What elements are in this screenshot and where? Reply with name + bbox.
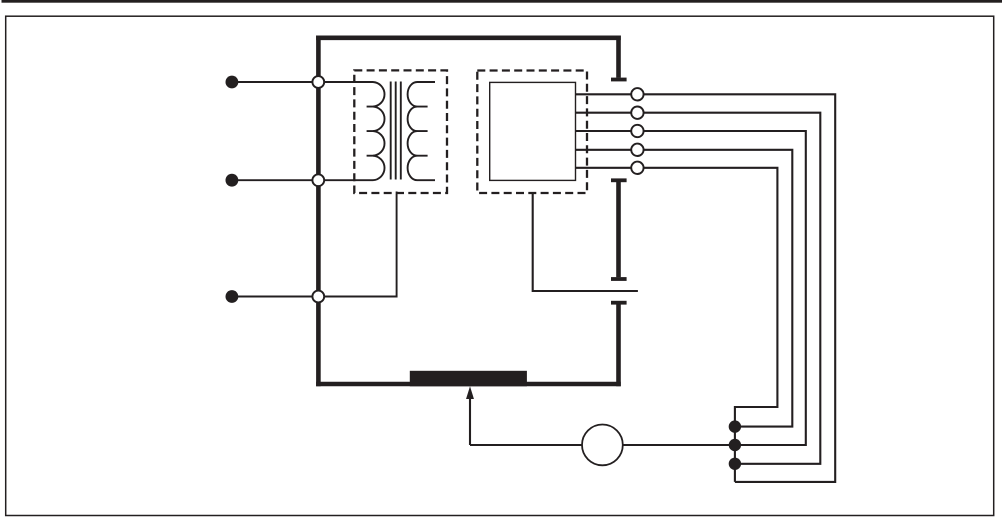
probe arrow shaft <box>469 399 471 446</box>
enclosure right wall middle stub <box>616 182 621 277</box>
transformer primary winding <box>373 82 385 180</box>
output wire 1 <box>576 94 836 482</box>
wire meter to bus <box>623 444 735 446</box>
enclosure bottom wall <box>316 382 621 387</box>
secondary winding cusp ticks <box>417 107 428 156</box>
antenna terminal A3 <box>631 125 643 137</box>
output wire 2 <box>576 113 821 464</box>
output wire 3 <box>576 131 806 445</box>
output wire 4 <box>576 150 793 427</box>
bushing terminal B2 <box>312 174 324 186</box>
bushing terminal B1 <box>312 76 324 88</box>
antenna terminal A1 <box>631 88 643 100</box>
primary winding cusp ticks <box>367 107 374 156</box>
wire L2 to transformer primary bottom <box>232 179 373 181</box>
transformer T1 dashed box <box>354 70 447 193</box>
antenna terminal A4 <box>631 144 643 156</box>
junction dot J1 <box>729 420 741 432</box>
antenna terminal A5 <box>631 162 643 174</box>
capacitor plate P2 <box>611 178 627 182</box>
enclosure right wall upper stub <box>616 36 621 78</box>
wire L1 to transformer primary top <box>232 81 373 83</box>
capacitor plate P3 <box>611 277 627 281</box>
transformer core <box>391 82 401 180</box>
mains terminal L1 <box>226 76 239 89</box>
meter M <box>582 425 623 466</box>
mains terminal L2 <box>226 174 239 187</box>
capacitor plate P1 <box>611 78 627 82</box>
transformer secondary winding <box>408 82 435 180</box>
top page rule bar (frame) <box>2 0 1002 3</box>
output wire 5 and common bus <box>576 168 778 482</box>
junction dot J3 <box>729 458 741 470</box>
wire from network block to capacitor gap <box>533 193 638 291</box>
mains terminal E (earth) <box>226 290 239 303</box>
network block dashed box <box>477 71 587 194</box>
enclosure right wall lower stub <box>616 304 621 386</box>
enclosure left wall <box>316 36 321 387</box>
wire electrode arrow to meter <box>470 444 582 446</box>
electrode bar on bottom wall <box>410 371 527 387</box>
junction dot J2 <box>729 439 741 451</box>
antenna terminal A2 <box>631 107 643 119</box>
bushing terminal B3 <box>312 291 324 303</box>
wire E to transformer screen <box>232 192 397 297</box>
enclosure top wall <box>316 35 621 40</box>
network block rectangle U1 <box>490 82 576 180</box>
capacitor plate P4 <box>611 301 627 305</box>
probe arrow head <box>466 386 474 399</box>
